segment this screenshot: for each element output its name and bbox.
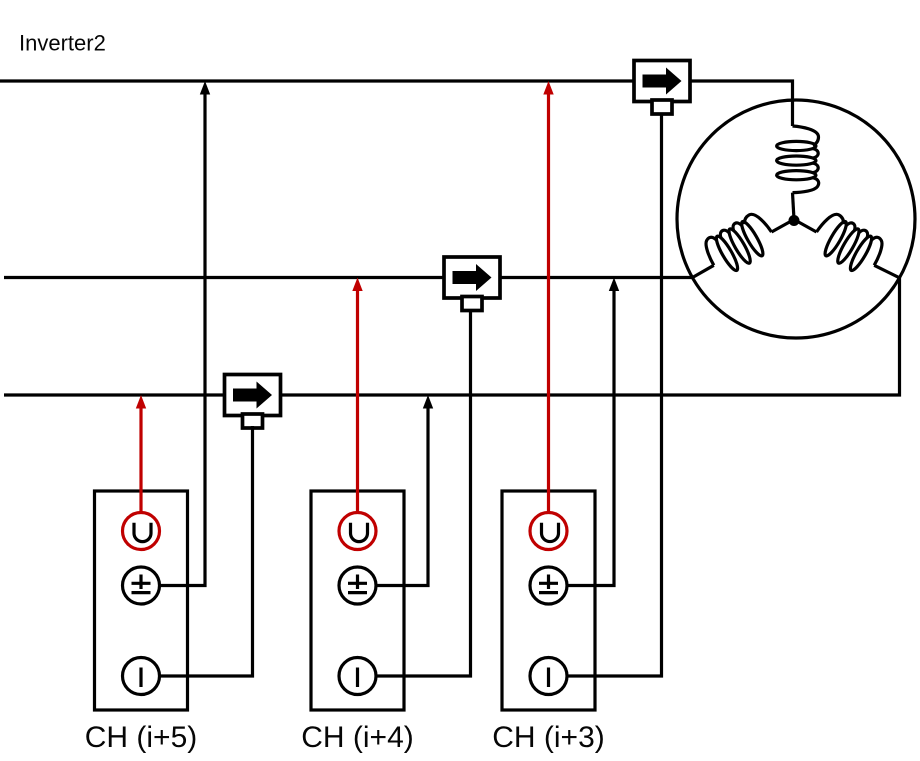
channel box CH (i+5) [95, 491, 188, 710]
wire: phase bus line 3 (bottom) [4, 278, 900, 395]
terminal +/- (polarity) of CH(i+5) [123, 567, 160, 604]
wire: CH(i+3) +/- terminal to line 2 with arrow [549, 290, 615, 586]
terminal +/- (polarity) of CH(i+4) [339, 567, 376, 604]
terminal I (current) of CH(i+4) [339, 658, 376, 695]
motor M1 stator circle [677, 100, 915, 338]
wire: star point to right winding stub [794, 220, 817, 233]
wire: CH(i+3) I terminal to clamp on line 1 [549, 114, 662, 676]
wire: top winding lead to star point [793, 193, 795, 220]
terminal I (current) of CH(i+5) [123, 658, 160, 695]
terminal I (current) of CH(i+3) [530, 658, 567, 695]
wire: CH(i+3) U probe to line 1 (red) with arrow [547, 93, 550, 531]
terminal U (voltage) of CH(i+4) [339, 513, 376, 550]
terminal U (voltage) of CH(i+5) [123, 513, 160, 550]
wire: CH(i+5) I terminal to clamp on line 3 [141, 426, 253, 676]
channel box CH (i+3) [502, 491, 595, 710]
node: star point junction dot [789, 215, 800, 226]
current clamp sensor on line 2 [444, 257, 500, 298]
wire: left winding to line 2 terminal on circle [693, 265, 714, 277]
current clamp sensor on line 1 [634, 61, 690, 102]
wire: phase bus line 2 (middle) [4, 276, 693, 279]
wire: CH(i+4) I terminal to clamp on line 2 [358, 309, 471, 676]
wire: right winding to line 3 terminal on circle [874, 265, 899, 278]
wire: star point to left winding stub [772, 220, 795, 233]
wire: CH(i+4) +/- terminal to line 3 with arrow [358, 407, 429, 586]
svg-text:CH (i+3): CH (i+3) [492, 721, 605, 754]
channel box CH (i+4) [311, 491, 404, 710]
coil right phase winding [809, 209, 888, 279]
terminal +/- (polarity) of CH(i+3) [530, 567, 567, 604]
wire: CH(i+4) U probe to line 2 (red) with arrow [356, 290, 359, 532]
wire: CH(i+5) +/- terminal to line 1 with arrow [141, 93, 205, 586]
coil left phase winding [701, 209, 780, 279]
current clamp sensor on line 3 [225, 375, 281, 416]
svg-text:CH (i+4): CH (i+4) [301, 721, 414, 754]
svg-text:Inverter2: Inverter2 [19, 31, 106, 56]
wire: CH(i+5) U probe to line 3 (red) with arrow [139, 407, 142, 531]
terminal U (voltage) of CH(i+3) [530, 513, 567, 550]
coil top phase winding [777, 126, 819, 193]
svg-text:CH (i+5): CH (i+5) [85, 721, 198, 754]
wire: phase bus line 1 (top) [0, 81, 793, 126]
